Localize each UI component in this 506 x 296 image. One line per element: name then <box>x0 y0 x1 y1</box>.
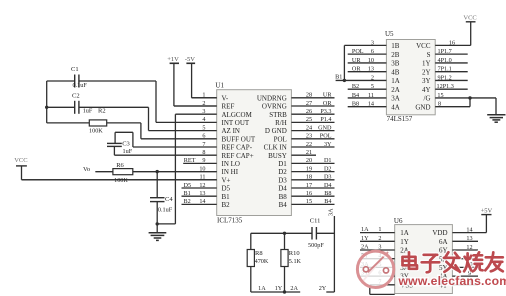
svg-text:AZ IN: AZ IN <box>222 127 240 135</box>
svg-text:D4: D4 <box>324 182 332 189</box>
svg-text:CLK IN: CLK IN <box>264 144 287 152</box>
wire oscillator bottom rail with net labels 1A 1Y 2A <box>251 285 300 292</box>
wire R2 right to U1 pin 6 BUFF OUT <box>107 123 141 139</box>
svg-text:B8: B8 <box>324 190 331 197</box>
op-amp U1 ICL7135 ADC body <box>215 82 291 225</box>
svg-text:GND: GND <box>318 124 332 131</box>
svg-text:12: 12 <box>199 182 205 189</box>
svg-text:1uF: 1uF <box>123 148 133 155</box>
svg-text:15: 15 <box>437 92 443 99</box>
svg-text:1A: 1A <box>258 285 266 292</box>
svg-text:P1.4: P1.4 <box>320 116 331 123</box>
svg-text:2Y: 2Y <box>422 68 431 76</box>
svg-text:5.1K: 5.1K <box>289 258 302 265</box>
capacitor C11 500pF <box>308 218 324 249</box>
wire U6 VSS corner <box>370 285 395 295</box>
svg-text:16: 16 <box>449 39 455 46</box>
svg-text:Vo: Vo <box>83 166 90 173</box>
svg-text:C4: C4 <box>165 196 173 203</box>
svg-text:6: 6 <box>202 133 205 140</box>
svg-text:RET: RET <box>184 157 196 164</box>
wire C4 top to IN HI node <box>156 172 158 198</box>
svg-text:VCC: VCC <box>416 42 431 50</box>
svg-text:V+: V+ <box>222 176 231 184</box>
svg-text:4Y: 4Y <box>422 86 431 94</box>
svg-text:GND: GND <box>415 103 430 111</box>
svg-text:21: 21 <box>306 149 312 156</box>
svg-text:-5V: -5V <box>185 56 195 63</box>
svg-text:ALGCOM: ALGCOM <box>222 111 253 119</box>
svg-text:1uF: 1uF <box>83 107 93 114</box>
svg-text:D3: D3 <box>324 174 332 181</box>
svg-text:REF CAP-: REF CAP- <box>222 144 253 152</box>
wire R8 leads <box>250 233 252 292</box>
ground symbol below C4 <box>149 233 167 241</box>
svg-text:100K: 100K <box>89 127 103 134</box>
svg-text:3A: 3A <box>391 95 400 103</box>
node junction C2 left <box>45 106 48 109</box>
svg-text:2A: 2A <box>391 86 400 94</box>
svg-text:S: S <box>427 51 431 59</box>
power VCC symbol above U5 <box>463 15 476 46</box>
svg-text:0.1uF: 0.1uF <box>158 207 173 214</box>
net label 3A rotated beside vertical <box>328 208 335 216</box>
U5 left pin stubs with net labels <box>336 39 387 107</box>
svg-text:IN HI: IN HI <box>222 168 239 176</box>
capacitor C2 1uF <box>72 93 93 115</box>
svg-text:UNDRNG: UNDRNG <box>257 94 287 102</box>
svg-text:1P1.7: 1P1.7 <box>438 48 452 55</box>
svg-text:2: 2 <box>378 235 381 242</box>
svg-text:470K: 470K <box>255 258 269 265</box>
svg-text:D2: D2 <box>324 165 332 172</box>
net label 2Y stub <box>319 285 335 292</box>
svg-text:4A: 4A <box>391 103 400 111</box>
svg-text:B1: B1 <box>222 193 231 201</box>
svg-text:20: 20 <box>306 157 312 164</box>
resistor R8 470K <box>247 250 269 267</box>
svg-text:OR: OR <box>323 100 332 107</box>
svg-text:4: 4 <box>202 116 205 123</box>
U6 left pin stubs with net labels <box>360 226 395 285</box>
ground symbol right of U5 <box>487 115 505 123</box>
svg-text:24: 24 <box>306 124 312 131</box>
wire 3A vertical from C11 right down to 2Y stub <box>333 216 335 292</box>
op-amp U5 74LS157 multiplexer body <box>385 30 435 123</box>
svg-text:12P1.3: 12P1.3 <box>437 83 454 90</box>
svg-text:3: 3 <box>378 244 381 251</box>
svg-text:4B: 4B <box>391 68 400 76</box>
svg-text:REF CAP+: REF CAP+ <box>222 152 254 160</box>
svg-text:B2: B2 <box>222 201 231 209</box>
net label Vo input <box>83 166 90 173</box>
svg-text:28: 28 <box>306 92 312 99</box>
svg-text:B4: B4 <box>324 198 331 205</box>
wire R10 leads <box>284 233 286 292</box>
wire U5 pin 8 GND up to pin 15 rail <box>469 98 471 107</box>
svg-text:VCC: VCC <box>14 157 27 164</box>
svg-text:R6: R6 <box>116 162 124 169</box>
svg-text:D3: D3 <box>278 176 287 184</box>
svg-text:23: 23 <box>306 133 312 140</box>
svg-text:1Y: 1Y <box>361 235 369 242</box>
svg-text:IN LO: IN LO <box>222 160 240 168</box>
watermark chinese text <box>403 252 503 272</box>
svg-text:U6: U6 <box>394 217 403 225</box>
svg-text:14: 14 <box>199 198 205 205</box>
svg-text:7: 7 <box>202 141 205 148</box>
node junction R10 top <box>283 232 286 235</box>
svg-text:OR: OR <box>352 66 361 73</box>
net label D5 on U1 pin 12 <box>184 182 192 189</box>
power -5V supply label and wire to U1 pin 1 V- <box>185 56 217 98</box>
capacitor C1 0.1uF <box>71 66 87 89</box>
node junction R6 output with C4 branch <box>156 170 159 173</box>
svg-text:5: 5 <box>202 124 205 131</box>
capacitor C3 1uF <box>107 141 133 156</box>
wire left vertical bus joining C1 C2 R2 <box>46 81 48 123</box>
wire C4 bottom to ground node <box>156 202 158 233</box>
svg-text:D4: D4 <box>278 185 287 193</box>
wire ground rail down <box>495 98 497 114</box>
U1 left pin stubs pins 1-14 with pin numbers <box>22 92 217 206</box>
svg-text:P3.3: P3.3 <box>320 108 331 115</box>
svg-text:C1: C1 <box>71 66 79 73</box>
svg-text:ICL7135: ICL7135 <box>217 217 243 225</box>
svg-text:D2: D2 <box>278 168 287 176</box>
svg-text:+1V: +1V <box>167 56 179 63</box>
net label B1 on U1 pin 13 <box>184 190 191 197</box>
svg-text:D1: D1 <box>324 157 332 164</box>
power VCC rail top-left feeding U1 pin 11 V+ <box>14 157 217 180</box>
svg-text:1A: 1A <box>400 229 409 237</box>
svg-text:D5: D5 <box>222 185 231 193</box>
svg-text:C3: C3 <box>122 141 130 148</box>
svg-text:B8: B8 <box>279 193 288 201</box>
svg-text:REF: REF <box>222 103 235 111</box>
svg-text:/G: /G <box>424 95 431 103</box>
svg-text:18: 18 <box>306 174 312 181</box>
svg-text:9P1.2: 9P1.2 <box>438 74 452 81</box>
svg-text:C11: C11 <box>310 218 321 225</box>
svg-text:OVRNG: OVRNG <box>262 103 287 111</box>
wire R2 left to bus <box>47 122 90 124</box>
svg-text:POL: POL <box>352 48 364 55</box>
svg-text:2Y: 2Y <box>319 285 327 292</box>
wire C1 row to U1 pin 4 INT OUT <box>47 81 156 122</box>
svg-text:+5V: +5V <box>481 208 493 215</box>
op-amp U6 hex inverter body <box>394 217 453 293</box>
svg-text:U1: U1 <box>215 82 224 90</box>
wire ALGCOM pin 3 down to analog ground node <box>157 114 175 224</box>
svg-text:1A: 1A <box>361 226 369 233</box>
svg-text:R8: R8 <box>255 250 263 257</box>
svg-text:7P1.1: 7P1.1 <box>438 66 452 73</box>
svg-text:11: 11 <box>368 92 374 99</box>
svg-text:B2: B2 <box>352 83 359 90</box>
svg-text:1B: 1B <box>391 42 400 50</box>
svg-text:V-: V- <box>222 94 229 102</box>
svg-text:BUSY: BUSY <box>268 152 287 160</box>
svg-text:B4: B4 <box>279 201 288 209</box>
svg-text:2A: 2A <box>290 285 298 292</box>
svg-text:B2: B2 <box>184 198 191 205</box>
resistor R10 5.1K <box>281 250 302 267</box>
wire C3 top over-route to U1 pin 7 REF CAP- <box>115 132 133 147</box>
svg-text:2A: 2A <box>361 244 369 251</box>
wire C2 row to U1 pin 5 AZ IN <box>47 107 149 130</box>
svg-text:B1: B1 <box>335 74 342 81</box>
svg-text:1Y: 1Y <box>400 238 409 246</box>
node junction B1 <box>343 79 346 82</box>
node junction U5 ground rail <box>468 96 471 99</box>
svg-text:9: 9 <box>202 157 205 164</box>
svg-text:5: 5 <box>371 83 374 90</box>
svg-text:POL: POL <box>320 133 332 140</box>
wire B1 net vertical to 1B <box>343 45 345 80</box>
svg-text:2: 2 <box>371 74 374 81</box>
svg-text:B8: B8 <box>352 101 359 108</box>
svg-text:R10: R10 <box>289 250 300 257</box>
svg-text:17: 17 <box>306 182 312 189</box>
svg-text:25: 25 <box>306 116 312 123</box>
svg-text:8: 8 <box>202 149 205 156</box>
svg-text:www.elecfans.com: www.elecfans.com <box>398 274 506 288</box>
svg-text:0.1uF: 0.1uF <box>73 82 88 89</box>
svg-text:1Y: 1Y <box>275 285 283 292</box>
svg-text:C2: C2 <box>72 93 80 100</box>
svg-text:VDD: VDD <box>432 229 447 237</box>
svg-text:14: 14 <box>368 101 374 108</box>
svg-text:12: 12 <box>466 244 472 251</box>
wire oscillator top rail <box>251 232 335 234</box>
resistor R6 100K <box>113 162 133 184</box>
svg-text:D1: D1 <box>278 160 287 168</box>
svg-text:D5: D5 <box>184 182 192 189</box>
svg-text:1: 1 <box>378 226 381 233</box>
U6 right pin stubs with numbers <box>452 226 486 285</box>
svg-text:15: 15 <box>306 198 312 205</box>
watermark logo circle with plug icon <box>357 251 393 287</box>
svg-text:13: 13 <box>199 190 205 197</box>
svg-text:14: 14 <box>466 226 472 233</box>
resistor R2 100K <box>89 107 107 134</box>
power +5V supply above U6 <box>481 208 493 233</box>
svg-text:16: 16 <box>306 190 312 197</box>
svg-text:POL: POL <box>274 135 287 143</box>
svg-text:10: 10 <box>368 57 374 64</box>
svg-text:2B: 2B <box>391 51 400 59</box>
wire Vo through R6 to U1 pin 10 IN HI <box>95 171 216 173</box>
svg-text:500pF: 500pF <box>308 242 324 249</box>
svg-text:4P1.0: 4P1.0 <box>438 57 452 64</box>
svg-text:13: 13 <box>466 235 472 242</box>
svg-text:D GND: D GND <box>265 127 287 135</box>
power +1V supply label and wire to U1 pin 2 REF <box>167 56 217 106</box>
node junction analog ground <box>156 222 159 225</box>
svg-text:19: 19 <box>306 165 312 172</box>
svg-text:UR: UR <box>352 57 361 64</box>
net label RET on U1 pin 9 <box>184 157 196 164</box>
watermark url text <box>398 274 506 288</box>
svg-text:26: 26 <box>306 108 312 115</box>
svg-text:22: 22 <box>306 141 312 148</box>
svg-text:13: 13 <box>368 66 374 73</box>
svg-text:1Y: 1Y <box>422 60 431 68</box>
svg-text:3Y: 3Y <box>324 141 332 148</box>
svg-text:100K: 100K <box>114 177 128 184</box>
U1 right pin stubs pins 28-15 with numbers and net labels <box>291 92 334 206</box>
svg-text:3Y: 3Y <box>422 77 431 85</box>
svg-text:3B: 3B <box>391 60 400 68</box>
svg-text:R2: R2 <box>98 107 106 114</box>
svg-text:VCC: VCC <box>463 15 476 22</box>
svg-text:3: 3 <box>371 39 374 46</box>
svg-text:74LS157: 74LS157 <box>387 115 413 123</box>
svg-text:6A: 6A <box>439 238 448 246</box>
net label B2 on U1 pin 14 <box>184 198 191 205</box>
svg-text:27: 27 <box>306 100 312 107</box>
net label B1 to U5 <box>335 74 342 81</box>
svg-text:INT OUT: INT OUT <box>222 119 250 127</box>
wire C3 bottom to U1 pin 8 REF CAP+ <box>113 146 115 155</box>
U5 right pin stubs with labels <box>435 39 496 107</box>
svg-text:R/H: R/H <box>275 119 287 127</box>
node junction R10 bottom <box>283 290 286 293</box>
svg-text:U5: U5 <box>385 30 394 38</box>
svg-text:B1: B1 <box>184 190 191 197</box>
svg-text:B4: B4 <box>352 92 359 99</box>
svg-text:3A: 3A <box>328 208 335 216</box>
svg-text:UR: UR <box>323 92 332 99</box>
capacitor C4 0.1uF <box>150 196 173 214</box>
svg-text:6: 6 <box>371 48 374 55</box>
svg-text:STRB: STRB <box>269 111 287 119</box>
svg-text:8: 8 <box>438 101 441 108</box>
svg-text:BUFF OUT: BUFF OUT <box>222 135 256 143</box>
svg-text:3: 3 <box>202 108 205 115</box>
svg-text:1A: 1A <box>391 77 400 85</box>
